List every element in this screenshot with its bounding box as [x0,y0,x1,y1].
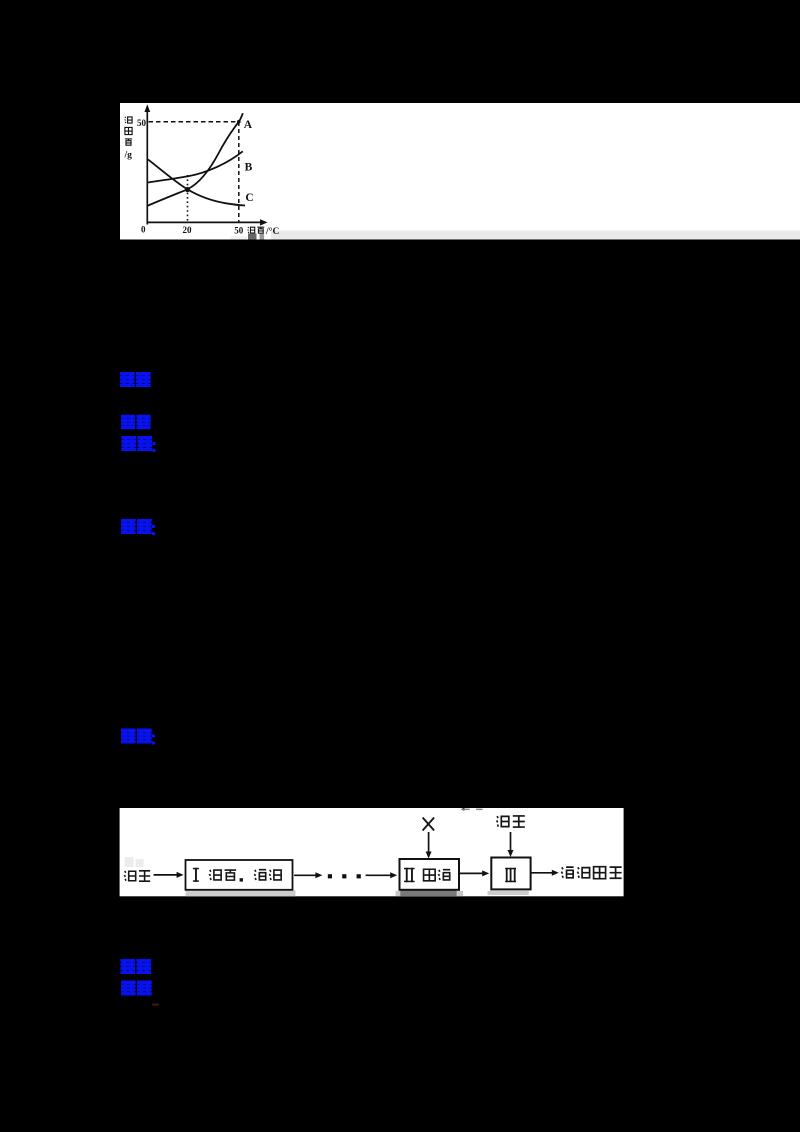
wire arrow 1 (river water to box I) [154,874,180,876]
blue link row 5 (dianping:) [121,730,152,742]
top edge grey tick left [461,809,470,811]
box I (sedimentation, filtration) [186,860,293,890]
svg-text:50: 50 [234,226,244,236]
svg-text:20: 20 [183,225,193,235]
numeral I in box I [193,868,199,882]
box I label glyphs (chenjiang, guolv) [209,870,281,882]
blue link row 2 (zhuanti) [121,416,151,427]
dashed gridline x=50 [238,122,240,222]
x-axis title glyphs (temperature) [248,227,264,233]
purification flow diagram panel [120,808,624,896]
dotted gridline x=20 [187,175,189,222]
wire arrow 2 (box I to dots) [294,874,318,876]
top edge grey tick right [476,809,483,811]
svg-text:50: 50 [137,118,147,128]
numeral II in box II [404,868,415,882]
node X label [423,818,435,831]
svg-text:C: C [245,192,253,204]
wire arrow X into box II [428,832,430,854]
box II shadow light [396,891,463,896]
node heshui (river water) glyphs [124,871,150,881]
dark smudge under axis title [248,234,257,240]
blue link row 7 (jiexi) [121,982,152,994]
wire arrow 5 (box III to purified water) [531,872,555,874]
node yelv (liquid chlorine) glyphs [497,816,525,827]
colon of row 3 [153,442,156,452]
dashed gridline y=50 [149,121,239,123]
y-axis title glyphs (solubility) [125,117,132,145]
box III [491,858,530,890]
blue link row 6 (daan) [120,961,151,973]
grey scan strip under graph [271,231,800,240]
y-axis arrowhead [144,104,150,112]
intersection dot A-C at 20 deg [185,187,190,192]
solubility graph panel [120,103,800,240]
blue link row 4 (jieda:) [121,521,152,533]
svg-text:A: A [244,119,253,131]
box II label glyphs (xifu) [424,869,451,881]
blue link row 3 (fenxi:) [121,438,152,450]
red speck [152,1004,159,1006]
numeral III in box III [505,868,516,882]
curve B [148,151,243,182]
svg-text:B: B [245,162,253,174]
top edge notch [463,808,465,810]
faint watermark [125,857,144,867]
colon of row 4 [152,525,155,535]
ellipsis dot 2 [342,874,346,878]
y-axis [146,110,148,225]
wire arrow liquid chlorine into box III [510,832,512,852]
blue link row 1 (kaodian) [120,374,151,386]
svg-text:/°C: /°C [265,226,279,237]
grey smudge under axis title [260,234,265,240]
box II shadow dark [400,890,456,896]
box I shadow [186,890,296,896]
light smudge left of strip [230,236,247,239]
x-axis [147,221,262,223]
box III shadow [488,891,529,895]
curve C [148,159,245,205]
colon of row 5 [152,735,155,745]
dot where curve A meets 50-gridlines [237,120,241,124]
svg-text:0: 0 [141,225,146,235]
x-axis arrowhead [260,219,268,225]
ellipsis dot 3 [357,874,361,878]
wire arrow 3 (dots to box II) [366,874,393,876]
curve A [148,113,243,206]
box II (adsorption) [400,859,460,890]
wire arrow 4 (box II to box III) [460,872,485,874]
svg-text:/g: /g [124,151,133,161]
ellipsis dot 1 [328,874,332,878]
node jinghua de shui (purified water) glyphs [561,867,621,879]
